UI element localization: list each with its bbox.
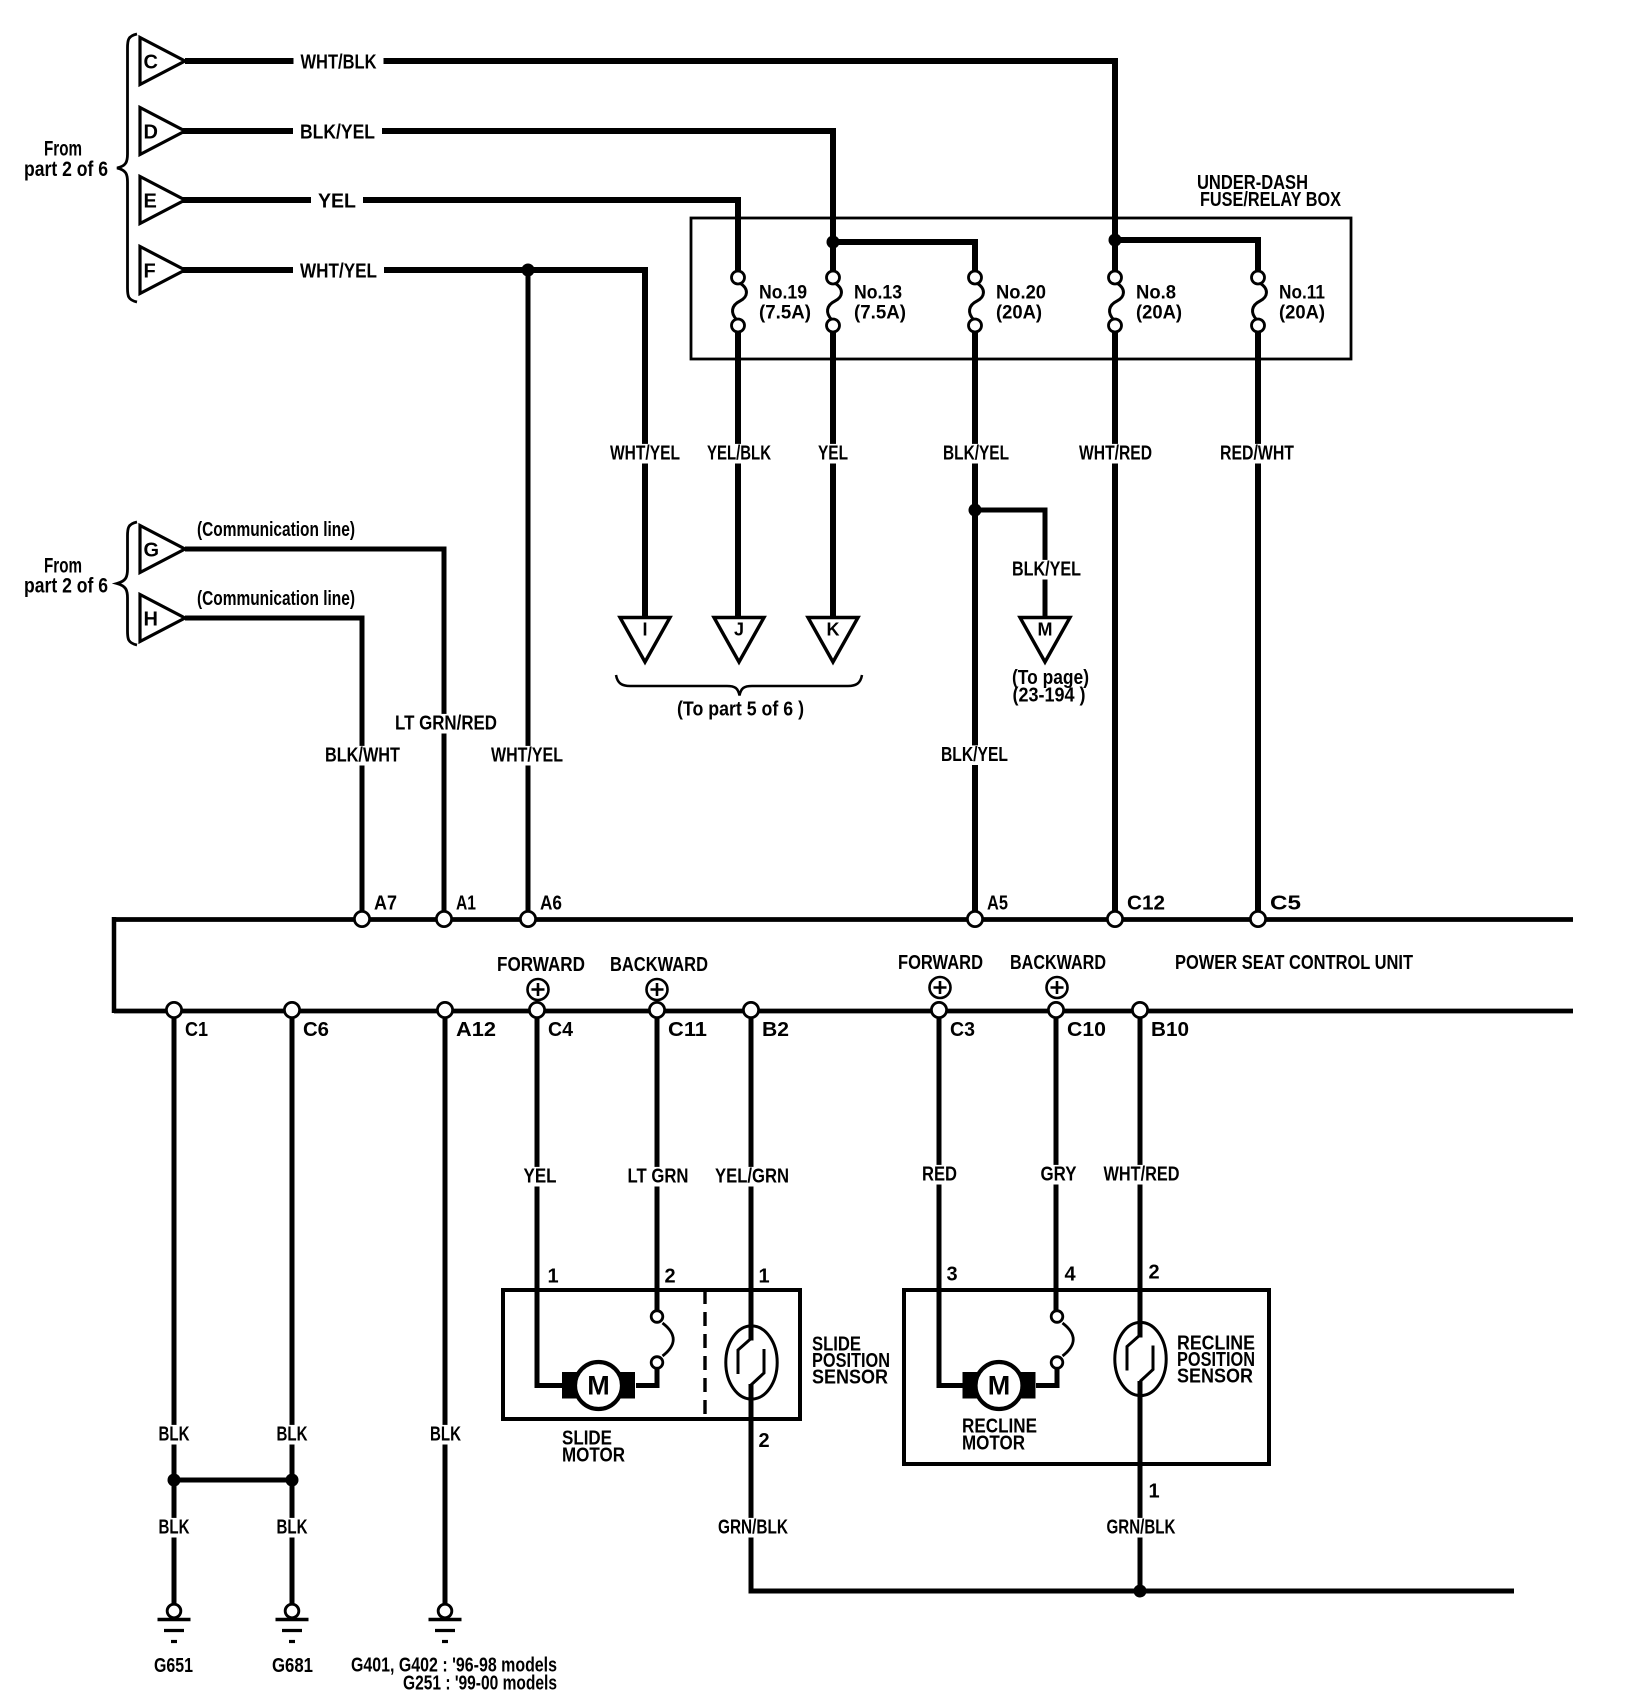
wire label BLK at C1 lower <box>152 1518 197 1538</box>
fuse No.11 (20A) <box>1252 271 1326 332</box>
svg-text:C1: C1 <box>185 1019 208 1041</box>
svg-text:WHT/YEL: WHT/YEL <box>491 745 563 767</box>
svg-text:FUSE/RELAY BOX: FUSE/RELAY BOX <box>1200 189 1342 211</box>
connector triangle F <box>140 247 185 294</box>
svg-text:(7.5A): (7.5A) <box>854 303 906 324</box>
svg-text:BLK: BLK <box>277 1517 308 1539</box>
svg-text:2: 2 <box>1149 1262 1160 1284</box>
svg-text:BLK/YEL: BLK/YEL <box>300 122 375 144</box>
pin C10 connector circle <box>1048 1002 1063 1017</box>
connector triangle M <box>1020 618 1070 663</box>
svg-text:part 2 of 6: part 2 of 6 <box>24 158 108 181</box>
pin C1 connector circle <box>166 1002 181 1017</box>
wire label BLK at C1 upper <box>152 1425 197 1445</box>
svg-text:No.13: No.13 <box>854 283 902 304</box>
svg-text:I: I <box>642 620 647 640</box>
wire slide switch to motor brush <box>636 1368 657 1386</box>
wire recline switch to motor brush <box>1036 1368 1057 1386</box>
wire label BLK/YEL at branch to M <box>1005 560 1088 580</box>
fuse No.20 (20A) <box>969 271 1047 332</box>
svg-text:MOTOR: MOTOR <box>962 1433 1025 1455</box>
wire label YEL at C4 <box>517 1167 564 1187</box>
svg-text:A7: A7 <box>374 893 397 915</box>
connector triangle D <box>140 108 185 155</box>
svg-text:POWER SEAT CONTROL UNIT: POWER SEAT CONTROL UNIT <box>1175 952 1413 974</box>
svg-text:YEL/GRN: YEL/GRN <box>715 1166 789 1188</box>
wire BLK from pin C6 to ground G681 <box>290 1010 295 1605</box>
wire label WHT/RED below fuse box <box>1072 444 1159 464</box>
svg-text:1: 1 <box>1148 1481 1159 1503</box>
junction dot BLK/YEL branch to M <box>969 504 982 517</box>
wire left edge of power seat control unit <box>112 917 117 1013</box>
svg-text:(23-194 ): (23-194 ) <box>1013 685 1086 707</box>
slide motor internal switch <box>651 1311 673 1369</box>
svg-text:C4: C4 <box>548 1019 574 1041</box>
svg-text:(7.5A): (7.5A) <box>759 303 811 324</box>
wire link between C1 and C6 grounds <box>174 1478 292 1483</box>
svg-text:D: D <box>144 122 158 144</box>
pin A1 connector circle <box>436 911 451 926</box>
under-dash fuse/relay box outline <box>691 218 1351 359</box>
svg-text:M: M <box>1038 620 1053 640</box>
wire YEL pin C4 to slide motor <box>537 1010 562 1386</box>
wire GRN/BLK recline sensor to bottom run <box>1138 1381 1143 1591</box>
svg-text:4: 4 <box>1065 1264 1077 1286</box>
svg-text:SENSOR: SENSOR <box>812 1367 888 1389</box>
wire top bus of power seat control unit <box>114 917 1573 922</box>
svg-text:GRY: GRY <box>1041 1164 1078 1186</box>
wire label RED at C3 <box>915 1165 964 1185</box>
connector triangle K <box>808 618 858 663</box>
junction dot GRN/BLK bottom run <box>1134 1585 1147 1598</box>
wire YEL fuse No.13 to triangle K <box>830 332 836 617</box>
svg-text:BACKWARD: BACKWARD <box>610 954 708 976</box>
wire BLK from pin C1 to ground G651 <box>172 1010 177 1605</box>
svg-text:BACKWARD: BACKWARD <box>1010 952 1106 974</box>
svg-text:(To part 5 of 6 ): (To part 5 of 6 ) <box>677 699 804 721</box>
pin C5 connector circle <box>1250 911 1265 926</box>
wire BLK/YEL fuse No.20 to pin A5 <box>972 332 978 919</box>
pin A7 connector circle <box>354 911 369 926</box>
svg-text:G681: G681 <box>272 1655 313 1677</box>
junction dot WHT/BLK in fuse box <box>1109 234 1122 247</box>
wire GRY pin C10 to recline motor switch <box>1054 1010 1059 1311</box>
svg-text:C3: C3 <box>950 1019 975 1041</box>
pin C3 connector circle <box>931 1002 946 1017</box>
wire WHT/RED fuse No.8 to pin C12 <box>1112 332 1118 919</box>
recline motor M symbol <box>963 1362 1036 1409</box>
fuse No.19 (7.5A) <box>732 271 812 332</box>
wire label WHT/YEL <box>293 262 384 282</box>
svg-text:A5: A5 <box>987 893 1008 915</box>
wire label BLK/YEL <box>293 123 382 143</box>
wire label BLK at C6 upper <box>270 1425 315 1445</box>
connector triangle C <box>140 38 185 85</box>
wire LT GRN pin C11 to slide motor switch <box>655 1010 660 1311</box>
svg-text:C11: C11 <box>668 1019 707 1041</box>
svg-text:No.20: No.20 <box>996 283 1046 304</box>
pin C11 connector circle <box>649 1002 664 1017</box>
wire label LT GRN/RED <box>388 714 504 734</box>
ground G681 <box>276 1604 309 1641</box>
slide motor box outline <box>503 1290 800 1419</box>
svg-text:G251 : '99-00 models: G251 : '99-00 models <box>403 1673 557 1695</box>
polarity mark forward recline <box>930 977 951 998</box>
ground G651 <box>158 1604 191 1641</box>
svg-text:WHT/RED: WHT/RED <box>1079 443 1152 465</box>
svg-text:LT GRN/RED: LT GRN/RED <box>395 713 497 735</box>
svg-text:2: 2 <box>758 1430 769 1452</box>
connector triangle H <box>140 595 185 642</box>
svg-text:WHT/BLK: WHT/BLK <box>301 52 377 74</box>
svg-text:G651: G651 <box>154 1655 193 1677</box>
svg-text:(20A): (20A) <box>1136 303 1182 324</box>
svg-text:C5: C5 <box>1270 893 1301 915</box>
svg-text:(Communication line): (Communication line) <box>197 519 355 541</box>
svg-text:(20A): (20A) <box>1279 303 1325 324</box>
svg-text:WHT/YEL: WHT/YEL <box>300 261 377 283</box>
svg-text:WHT/YEL: WHT/YEL <box>610 443 680 465</box>
wire label RED/WHT below fuse box <box>1213 444 1301 464</box>
pin C6 connector circle <box>284 1002 299 1017</box>
svg-text:No.8: No.8 <box>1136 283 1176 304</box>
svg-text:2: 2 <box>665 1266 676 1288</box>
wire YEL from connector E to fuse No.19 <box>181 200 738 271</box>
wire branch BLK/YEL to triangle M <box>975 510 1045 617</box>
svg-text:C6: C6 <box>303 1019 329 1041</box>
svg-text:C: C <box>144 52 158 74</box>
wire GRN/BLK slide sensor to bottom run <box>751 1384 1514 1591</box>
svg-text:FORWARD: FORWARD <box>497 954 585 976</box>
wire label WHT/BLK <box>294 53 384 73</box>
wire branch BLK/YEL to fuse No.20 <box>833 242 975 271</box>
svg-text:B2: B2 <box>762 1019 789 1041</box>
svg-text:1: 1 <box>759 1266 770 1288</box>
svg-text:3: 3 <box>947 1264 958 1286</box>
fuse No.13 (7.5A) <box>827 271 907 332</box>
wire YEL/GRN pin B2 to slide position sensor <box>749 1010 754 1341</box>
svg-text:YEL: YEL <box>318 191 356 213</box>
wire label BLK/WHT <box>318 746 407 766</box>
svg-text:No.19: No.19 <box>759 283 807 304</box>
svg-text:C10: C10 <box>1067 1019 1106 1041</box>
wire label GRN/BLK at B10 <box>1100 1518 1183 1538</box>
svg-text:RED/WHT: RED/WHT <box>1220 443 1294 465</box>
wire communication line from G to pin A1 <box>185 549 444 919</box>
svg-text:WHT/RED: WHT/RED <box>1104 1164 1180 1186</box>
svg-text:YEL: YEL <box>818 443 848 465</box>
polarity mark forward slide <box>528 979 549 1000</box>
svg-text:(Communication line): (Communication line) <box>197 588 355 610</box>
fuse No.8 (20A) <box>1109 271 1183 332</box>
pin C12 connector circle <box>1107 911 1122 926</box>
polarity mark backward recline <box>1047 977 1068 998</box>
wire label YEL below fuse box <box>811 444 855 464</box>
wire label YEL/BLK below fuse box <box>700 444 778 464</box>
wire WHT/YEL from connector F to triangle I <box>183 270 645 617</box>
wire label WHT/YEL above pin A6 <box>484 746 570 766</box>
svg-text:J: J <box>734 620 744 640</box>
ground G401/G402/G251 <box>429 1604 462 1641</box>
wire label GRY at C10 <box>1034 1165 1084 1185</box>
wire WHT/YEL drop to pin A6 <box>526 270 531 919</box>
wire communication line from H to pin A7 <box>185 618 362 919</box>
connector triangle J <box>714 618 764 663</box>
svg-text:A1: A1 <box>456 893 476 915</box>
wire BLK/YEL from connector D to fuse box <box>183 131 833 271</box>
svg-text:GRN/BLK: GRN/BLK <box>1107 1517 1176 1539</box>
junction dot C1 ground link <box>168 1474 181 1487</box>
svg-text:FORWARD: FORWARD <box>898 952 983 974</box>
svg-text:C12: C12 <box>1127 893 1165 915</box>
brace for connectors C-F <box>117 34 137 302</box>
junction dot C6 ground link <box>286 1474 299 1487</box>
svg-text:1: 1 <box>548 1266 559 1288</box>
connector triangle G <box>140 526 185 573</box>
svg-text:(20A): (20A) <box>996 303 1042 324</box>
recline position sensor symbol <box>1115 1322 1166 1395</box>
recline motor internal switch <box>1051 1311 1073 1369</box>
wire label WHT/RED at B10 <box>1097 1165 1187 1185</box>
wire label BLK at A12 <box>423 1425 468 1445</box>
wire label BLK/YEL below fuse box <box>936 444 1016 464</box>
svg-text:YEL/BLK: YEL/BLK <box>707 443 771 465</box>
junction dot WHT/YEL at F line <box>522 264 535 277</box>
svg-text:F: F <box>144 261 156 283</box>
svg-text:A12: A12 <box>456 1019 496 1041</box>
svg-text:No.11: No.11 <box>1279 283 1325 304</box>
wire label WHT/YEL below fuse box <box>603 444 687 464</box>
svg-text:BLK: BLK <box>430 1424 461 1446</box>
wire bottom bus of power seat control unit <box>114 1009 1573 1014</box>
pin C4 connector circle <box>529 1002 544 1017</box>
svg-text:GRN/BLK: GRN/BLK <box>718 1517 788 1539</box>
slide position sensor symbol <box>726 1326 777 1399</box>
svg-text:M: M <box>988 1371 1011 1401</box>
wire RED pin C3 to recline motor <box>939 1010 963 1386</box>
wire BLK from pin A12 to ground <box>443 1010 448 1605</box>
pin B10 connector circle <box>1132 1002 1147 1017</box>
junction dot BLK/YEL in fuse box <box>827 236 840 249</box>
wire WHT/BLK from connector C to fuse box <box>185 61 1115 271</box>
recline motor box outline <box>904 1290 1269 1464</box>
brace for connectors G-H <box>117 522 137 645</box>
connector triangle E <box>140 177 185 224</box>
svg-text:K: K <box>827 620 840 640</box>
polarity mark backward slide <box>647 979 668 1000</box>
svg-text:BLK: BLK <box>159 1517 190 1539</box>
wire label YEL/GRN at B2 <box>708 1167 796 1187</box>
svg-text:A6: A6 <box>540 893 562 915</box>
svg-text:B10: B10 <box>1151 1019 1189 1041</box>
svg-text:part 2 of 6: part 2 of 6 <box>24 575 108 598</box>
pin A12 connector circle <box>437 1002 452 1017</box>
svg-text:BLK/YEL: BLK/YEL <box>941 744 1008 766</box>
svg-text:H: H <box>144 609 158 631</box>
wire WHT/RED pin B10 to recline position sensor <box>1138 1010 1143 1338</box>
slide motor box divider (dashed) <box>703 1290 706 1419</box>
svg-text:BLK/YEL: BLK/YEL <box>1012 559 1081 581</box>
wire label LT GRN at C11 <box>621 1167 696 1187</box>
wire branch WHT/BLK to fuse No.11 <box>1115 240 1258 271</box>
svg-text:G: G <box>144 540 160 562</box>
connector triangle I <box>620 618 670 663</box>
svg-text:LT GRN: LT GRN <box>628 1166 689 1188</box>
pin A5 connector circle <box>967 911 982 926</box>
slide motor M symbol <box>562 1362 635 1409</box>
svg-text:YEL: YEL <box>524 1166 557 1188</box>
svg-text:BLK: BLK <box>159 1424 190 1446</box>
pin B2 connector circle <box>743 1002 758 1017</box>
svg-text:M: M <box>587 1371 610 1401</box>
svg-text:MOTOR: MOTOR <box>562 1445 625 1467</box>
svg-text:RED: RED <box>922 1164 957 1186</box>
wire label GRN/BLK at B2 <box>711 1518 795 1538</box>
pin A6 connector circle <box>520 911 535 926</box>
brace under triangles I J K <box>616 675 862 696</box>
wire label BLK at C6 lower <box>270 1518 315 1538</box>
wire RED/WHT fuse No.11 to pin C5 <box>1255 332 1261 919</box>
svg-text:BLK: BLK <box>277 1424 308 1446</box>
svg-text:E: E <box>144 191 157 213</box>
wire YEL/BLK fuse No.19 to triangle J <box>735 332 741 617</box>
wire label YEL <box>311 192 363 212</box>
svg-text:BLK/WHT: BLK/WHT <box>325 745 400 767</box>
svg-text:BLK/YEL: BLK/YEL <box>943 443 1009 465</box>
svg-text:SENSOR: SENSOR <box>1177 1366 1253 1388</box>
wire label BLK/YEL above pin A5 <box>934 745 1015 765</box>
